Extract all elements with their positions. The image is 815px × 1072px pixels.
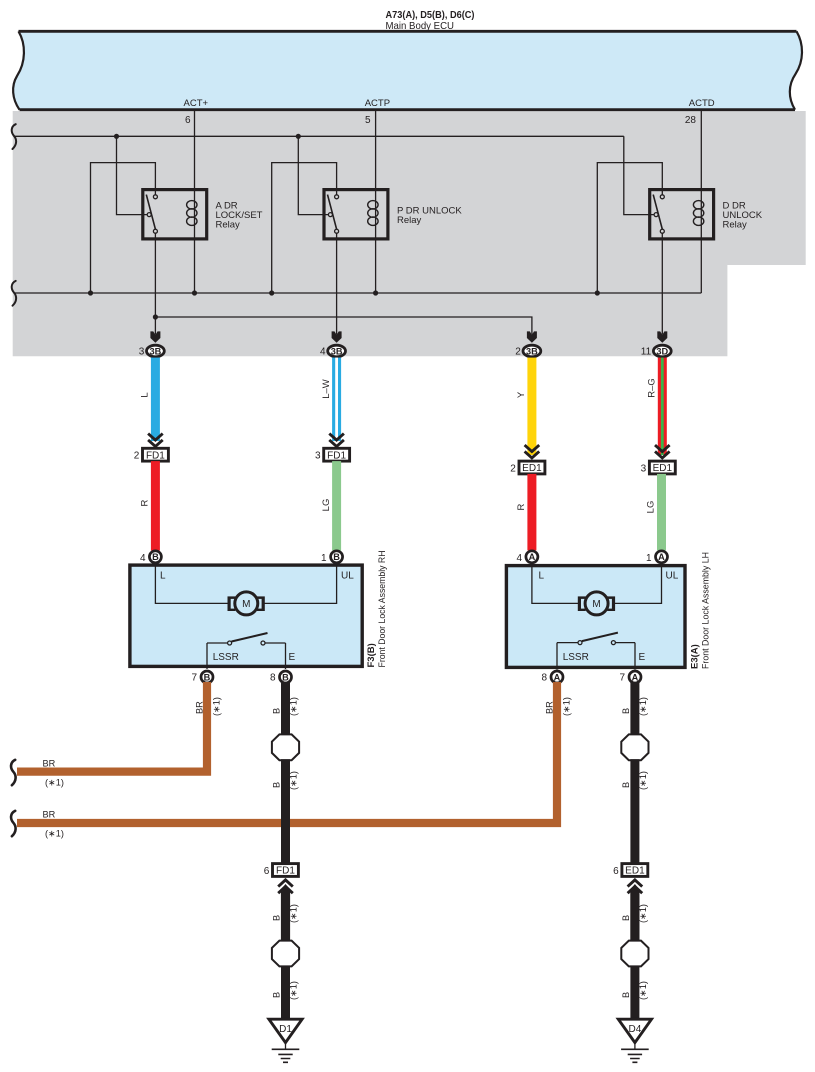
svg-text:7: 7 <box>619 672 625 683</box>
svg-text:8: 8 <box>541 672 547 683</box>
wire relay1 output branch to 2-3B <box>155 317 532 335</box>
relay2 contact top <box>335 195 339 199</box>
wire relay3 output down <box>661 233 663 334</box>
terminal circle B pin8 <box>280 671 292 683</box>
chevron arrows above ED1 pin2 <box>525 445 540 458</box>
connector oval 3D pin11 <box>653 345 671 357</box>
wire ECU pin5 to relay2 coil <box>375 111 377 240</box>
svg-text:(∗1): (∗1) <box>289 771 299 790</box>
junction dot upper bus / relay2 common <box>296 134 301 139</box>
wire relay2 coil to lower bus <box>375 240 377 293</box>
svg-text:ACTP: ACTP <box>365 98 390 109</box>
svg-text:A: A <box>554 672 561 682</box>
svg-text:R–G: R–G <box>647 378 658 398</box>
wire B black middle <box>281 759 290 863</box>
junction dot relay1 output branch <box>153 314 158 319</box>
svg-text:FD1: FD1 <box>146 450 165 461</box>
connector box ED1 pin6 <box>622 864 648 877</box>
svg-text:(∗1): (∗1) <box>289 904 299 923</box>
svg-text:(∗1): (∗1) <box>289 697 299 716</box>
svg-text:L: L <box>160 570 166 581</box>
svg-text:5: 5 <box>365 115 371 126</box>
svg-text:(∗1): (∗1) <box>212 697 222 716</box>
svg-text:L–W: L–W <box>321 379 332 399</box>
break mark brown wire 1 <box>11 760 16 785</box>
svg-text:B: B <box>272 782 282 788</box>
lock switch LH arm <box>582 633 618 642</box>
relay3 coil <box>693 201 703 226</box>
svg-text:6: 6 <box>264 866 270 877</box>
ECU band torn right edge <box>790 31 802 109</box>
svg-text:8: 8 <box>270 672 276 683</box>
wire B black upper <box>281 682 290 736</box>
junction dot lower bus / relay1 coil <box>192 290 197 295</box>
connector box ED1 pin3 <box>649 461 675 474</box>
junction dot lower bus / relay2 NC <box>269 290 274 295</box>
wire relay1 NC contact loop to lower bus <box>91 163 156 293</box>
connector arrow into 3B pin2 <box>527 331 537 342</box>
connector box FD1 pin2 <box>143 448 169 461</box>
wire upper bus to relay1 common <box>117 136 148 214</box>
svg-text:M: M <box>242 599 250 610</box>
wire L-W blue/white <box>332 358 341 441</box>
splice octagon 2 right <box>621 941 648 967</box>
lock switch RH contact right <box>261 641 265 645</box>
svg-text:UL: UL <box>341 570 354 581</box>
svg-text:A: A <box>632 672 639 682</box>
svg-text:4: 4 <box>516 553 522 564</box>
wire LG green right <box>657 474 666 551</box>
lock switch LH contact left <box>578 641 582 645</box>
lock switch LH contact right <box>611 641 615 645</box>
wire relay3 NC contact loop to lower bus <box>597 163 662 293</box>
relay block shaded area <box>13 111 806 356</box>
svg-text:Y: Y <box>516 391 527 398</box>
svg-text:3B: 3B <box>331 346 343 356</box>
wire LG green left <box>332 461 341 550</box>
svg-text:R: R <box>516 503 527 510</box>
up arrow under ED1 <box>630 884 639 890</box>
svg-text:ACT+: ACT+ <box>184 98 209 109</box>
svg-text:3: 3 <box>315 451 321 462</box>
motor RH <box>228 592 265 615</box>
svg-text:A: A <box>658 552 665 562</box>
svg-text:L: L <box>539 570 545 581</box>
relay1 contact top <box>153 195 157 199</box>
svg-text:BR: BR <box>43 759 56 769</box>
relay2 contact bottom <box>335 229 339 233</box>
junction dot upper bus / relay1 common <box>114 134 119 139</box>
wire relay3 coil to lower bus <box>700 240 702 293</box>
svg-text:BR: BR <box>43 810 56 820</box>
svg-text:3B: 3B <box>526 346 538 356</box>
svg-text:Relay: Relay <box>397 215 422 226</box>
connector box FD1 pin3 <box>324 448 350 461</box>
svg-text:2: 2 <box>134 451 140 462</box>
relay2 coil <box>368 201 378 226</box>
svg-text:BR: BR <box>545 701 555 714</box>
connector arrow into 3B pin3 <box>150 331 160 342</box>
relay2 common contact <box>328 213 332 217</box>
svg-text:4: 4 <box>320 347 326 358</box>
wire relay1 output down <box>154 233 156 334</box>
relay1 common contact <box>147 213 151 217</box>
wire ECU pin28 to relay3 coil <box>700 111 702 240</box>
chevron arrows above FD1 pin2 <box>148 434 163 447</box>
svg-text:B: B <box>204 672 211 682</box>
svg-text:LG: LG <box>321 499 332 512</box>
relay3 contact top <box>660 195 664 199</box>
svg-text:6: 6 <box>613 866 619 877</box>
lock switch RH contact left <box>228 641 232 645</box>
svg-text:28: 28 <box>685 115 697 126</box>
svg-text:B: B <box>272 708 282 714</box>
lock switch RH arm <box>232 633 268 642</box>
ground D1 <box>269 1019 302 1042</box>
connector box ED1 pin2 <box>519 461 545 474</box>
svg-text:B: B <box>272 992 282 998</box>
svg-text:4: 4 <box>140 553 146 564</box>
svg-text:(∗1): (∗1) <box>638 904 648 923</box>
wire upper bus to relay3 common <box>624 136 654 214</box>
wire R-G red/green <box>658 358 667 455</box>
svg-text:(∗1): (∗1) <box>562 697 572 716</box>
junction dot lower bus / relay3 NC <box>595 290 600 295</box>
relay1 coil <box>187 201 197 226</box>
svg-text:UL: UL <box>666 570 679 581</box>
relay1 box <box>143 190 207 239</box>
svg-text:B: B <box>621 782 631 788</box>
Main Body ECU band <box>13 31 802 109</box>
svg-text:LG: LG <box>646 501 657 514</box>
wire BR brown RH horizontal run <box>17 682 207 772</box>
svg-text:A: A <box>529 552 536 562</box>
wire upper bus to relay2 common <box>298 136 328 214</box>
relay1 switch arm <box>146 195 155 230</box>
relay3 switch arm <box>653 195 662 230</box>
svg-text:LSSR: LSSR <box>563 652 589 663</box>
ECU band torn left edge <box>13 31 24 109</box>
svg-text:D4: D4 <box>629 1024 642 1035</box>
motor wires RH <box>155 564 336 604</box>
break mark brown wire 2 <box>11 811 16 836</box>
wire Y yellow <box>527 358 536 455</box>
wire ECU pin6 to relay1 coil <box>194 111 196 240</box>
svg-text:B: B <box>333 552 340 562</box>
svg-text:D1: D1 <box>279 1024 292 1035</box>
splice octagon right <box>621 734 648 760</box>
connector oval 3B pin3 <box>147 345 165 357</box>
up arrow under FD1 <box>281 884 290 890</box>
wire BR brown LH horizontal run <box>17 682 557 823</box>
terminal circle B pin1 <box>331 551 343 563</box>
svg-text:FD1: FD1 <box>327 450 346 461</box>
svg-text:(∗1): (∗1) <box>638 771 648 790</box>
motor wires LH <box>532 564 662 603</box>
svg-text:2: 2 <box>515 347 521 358</box>
svg-text:Relay: Relay <box>723 220 748 231</box>
ground D4 <box>618 1019 651 1042</box>
terminal circle B pin7 <box>201 671 213 683</box>
svg-text:L: L <box>140 392 151 397</box>
wire B black lower right <box>630 966 639 1021</box>
connector oval 3B pin2 <box>523 345 541 357</box>
connector arrow into 3B pin4 <box>332 331 342 342</box>
assembly LH box <box>506 566 685 668</box>
svg-text:B: B <box>621 708 631 714</box>
svg-text:ACTD: ACTD <box>689 98 715 109</box>
wire relay2 NC contact loop to lower bus <box>272 163 337 293</box>
svg-text:1: 1 <box>646 553 652 564</box>
ECU band top border <box>19 30 797 33</box>
svg-text:Main Body ECU: Main Body ECU <box>386 20 455 32</box>
svg-text:E3(A): E3(A) <box>690 644 701 669</box>
connector arrow into 3D pin11 <box>657 331 667 342</box>
svg-text:(∗1): (∗1) <box>638 697 648 716</box>
svg-text:6: 6 <box>185 115 191 126</box>
wire L blue <box>151 358 160 441</box>
bus wire upper <box>14 135 624 137</box>
svg-text:ED1: ED1 <box>653 463 673 474</box>
terminal circle A pin8 <box>551 671 563 683</box>
wire B black middle right <box>630 759 639 863</box>
svg-text:Relay: Relay <box>216 220 241 231</box>
connector oval 3B pin4 <box>328 345 346 357</box>
motor LH <box>578 592 615 615</box>
svg-text:B: B <box>272 915 282 921</box>
terminal circle A pin4 <box>526 551 538 563</box>
svg-text:3D: 3D <box>656 346 668 356</box>
relay3 contact bottom <box>660 229 664 233</box>
lock switch LH <box>557 643 635 670</box>
svg-text:(∗1): (∗1) <box>45 778 64 788</box>
svg-text:Front Door Lock Assembly LH: Front Door Lock Assembly LH <box>701 552 712 669</box>
terminal circle A pin1 <box>656 551 668 563</box>
svg-text:FD1: FD1 <box>276 866 295 877</box>
break mark upper bus <box>12 124 16 149</box>
svg-text:11: 11 <box>641 347 652 358</box>
svg-text:B: B <box>282 672 289 682</box>
chevron arrows above FD1 pin3 <box>329 434 344 447</box>
wire relay2 output down <box>336 233 338 334</box>
relay2 box <box>324 190 388 239</box>
wire R red left <box>151 461 160 550</box>
wire relay1 coil to lower bus <box>194 240 196 293</box>
svg-text:3: 3 <box>641 463 647 474</box>
relay2 switch arm <box>328 195 337 230</box>
chevron arrows above ED1 pin3 <box>655 445 670 458</box>
svg-text:Front Door Lock Assembly RH: Front Door Lock Assembly RH <box>377 550 388 667</box>
lock switch RH <box>207 643 286 669</box>
svg-text:B: B <box>152 552 159 562</box>
wire B black lower <box>281 966 290 1021</box>
svg-text:E: E <box>289 652 296 663</box>
relay3 common contact <box>654 213 658 217</box>
wire B black upper right <box>630 682 639 736</box>
svg-text:7: 7 <box>191 672 197 683</box>
svg-text:B: B <box>621 992 631 998</box>
svg-text:(∗1): (∗1) <box>638 981 648 1000</box>
junction dot lower bus / relay2 coil <box>373 290 378 295</box>
svg-text:(∗1): (∗1) <box>45 829 64 839</box>
relay1 contact bottom <box>153 229 157 233</box>
svg-text:(∗1): (∗1) <box>289 981 299 1000</box>
svg-text:ED1: ED1 <box>522 463 542 474</box>
splice octagon <box>272 734 299 760</box>
terminal circle A pin7 <box>629 671 641 683</box>
svg-text:E: E <box>639 652 646 663</box>
assembly RH box <box>130 565 362 666</box>
break mark lower bus <box>12 281 16 306</box>
svg-text:B: B <box>621 915 631 921</box>
svg-text:BR: BR <box>195 701 205 714</box>
svg-text:2: 2 <box>510 463 516 474</box>
svg-text:ED1: ED1 <box>625 866 645 877</box>
svg-text:F3(B): F3(B) <box>366 643 377 667</box>
ECU band bottom border <box>20 108 796 111</box>
splice octagon 2 <box>272 941 299 967</box>
relay3 box <box>650 190 714 239</box>
svg-text:1: 1 <box>321 553 327 564</box>
svg-text:3B: 3B <box>150 346 162 356</box>
svg-text:3: 3 <box>139 347 145 358</box>
connector box FD1 pin6 <box>273 864 299 877</box>
terminal circle B pin4 <box>149 551 161 563</box>
wire R red right <box>527 474 536 551</box>
junction dot lower bus / relay1 NC <box>88 290 93 295</box>
svg-text:R: R <box>140 499 151 506</box>
svg-text:M: M <box>592 599 600 610</box>
svg-text:LSSR: LSSR <box>213 652 239 663</box>
bus wire lower <box>14 292 701 294</box>
